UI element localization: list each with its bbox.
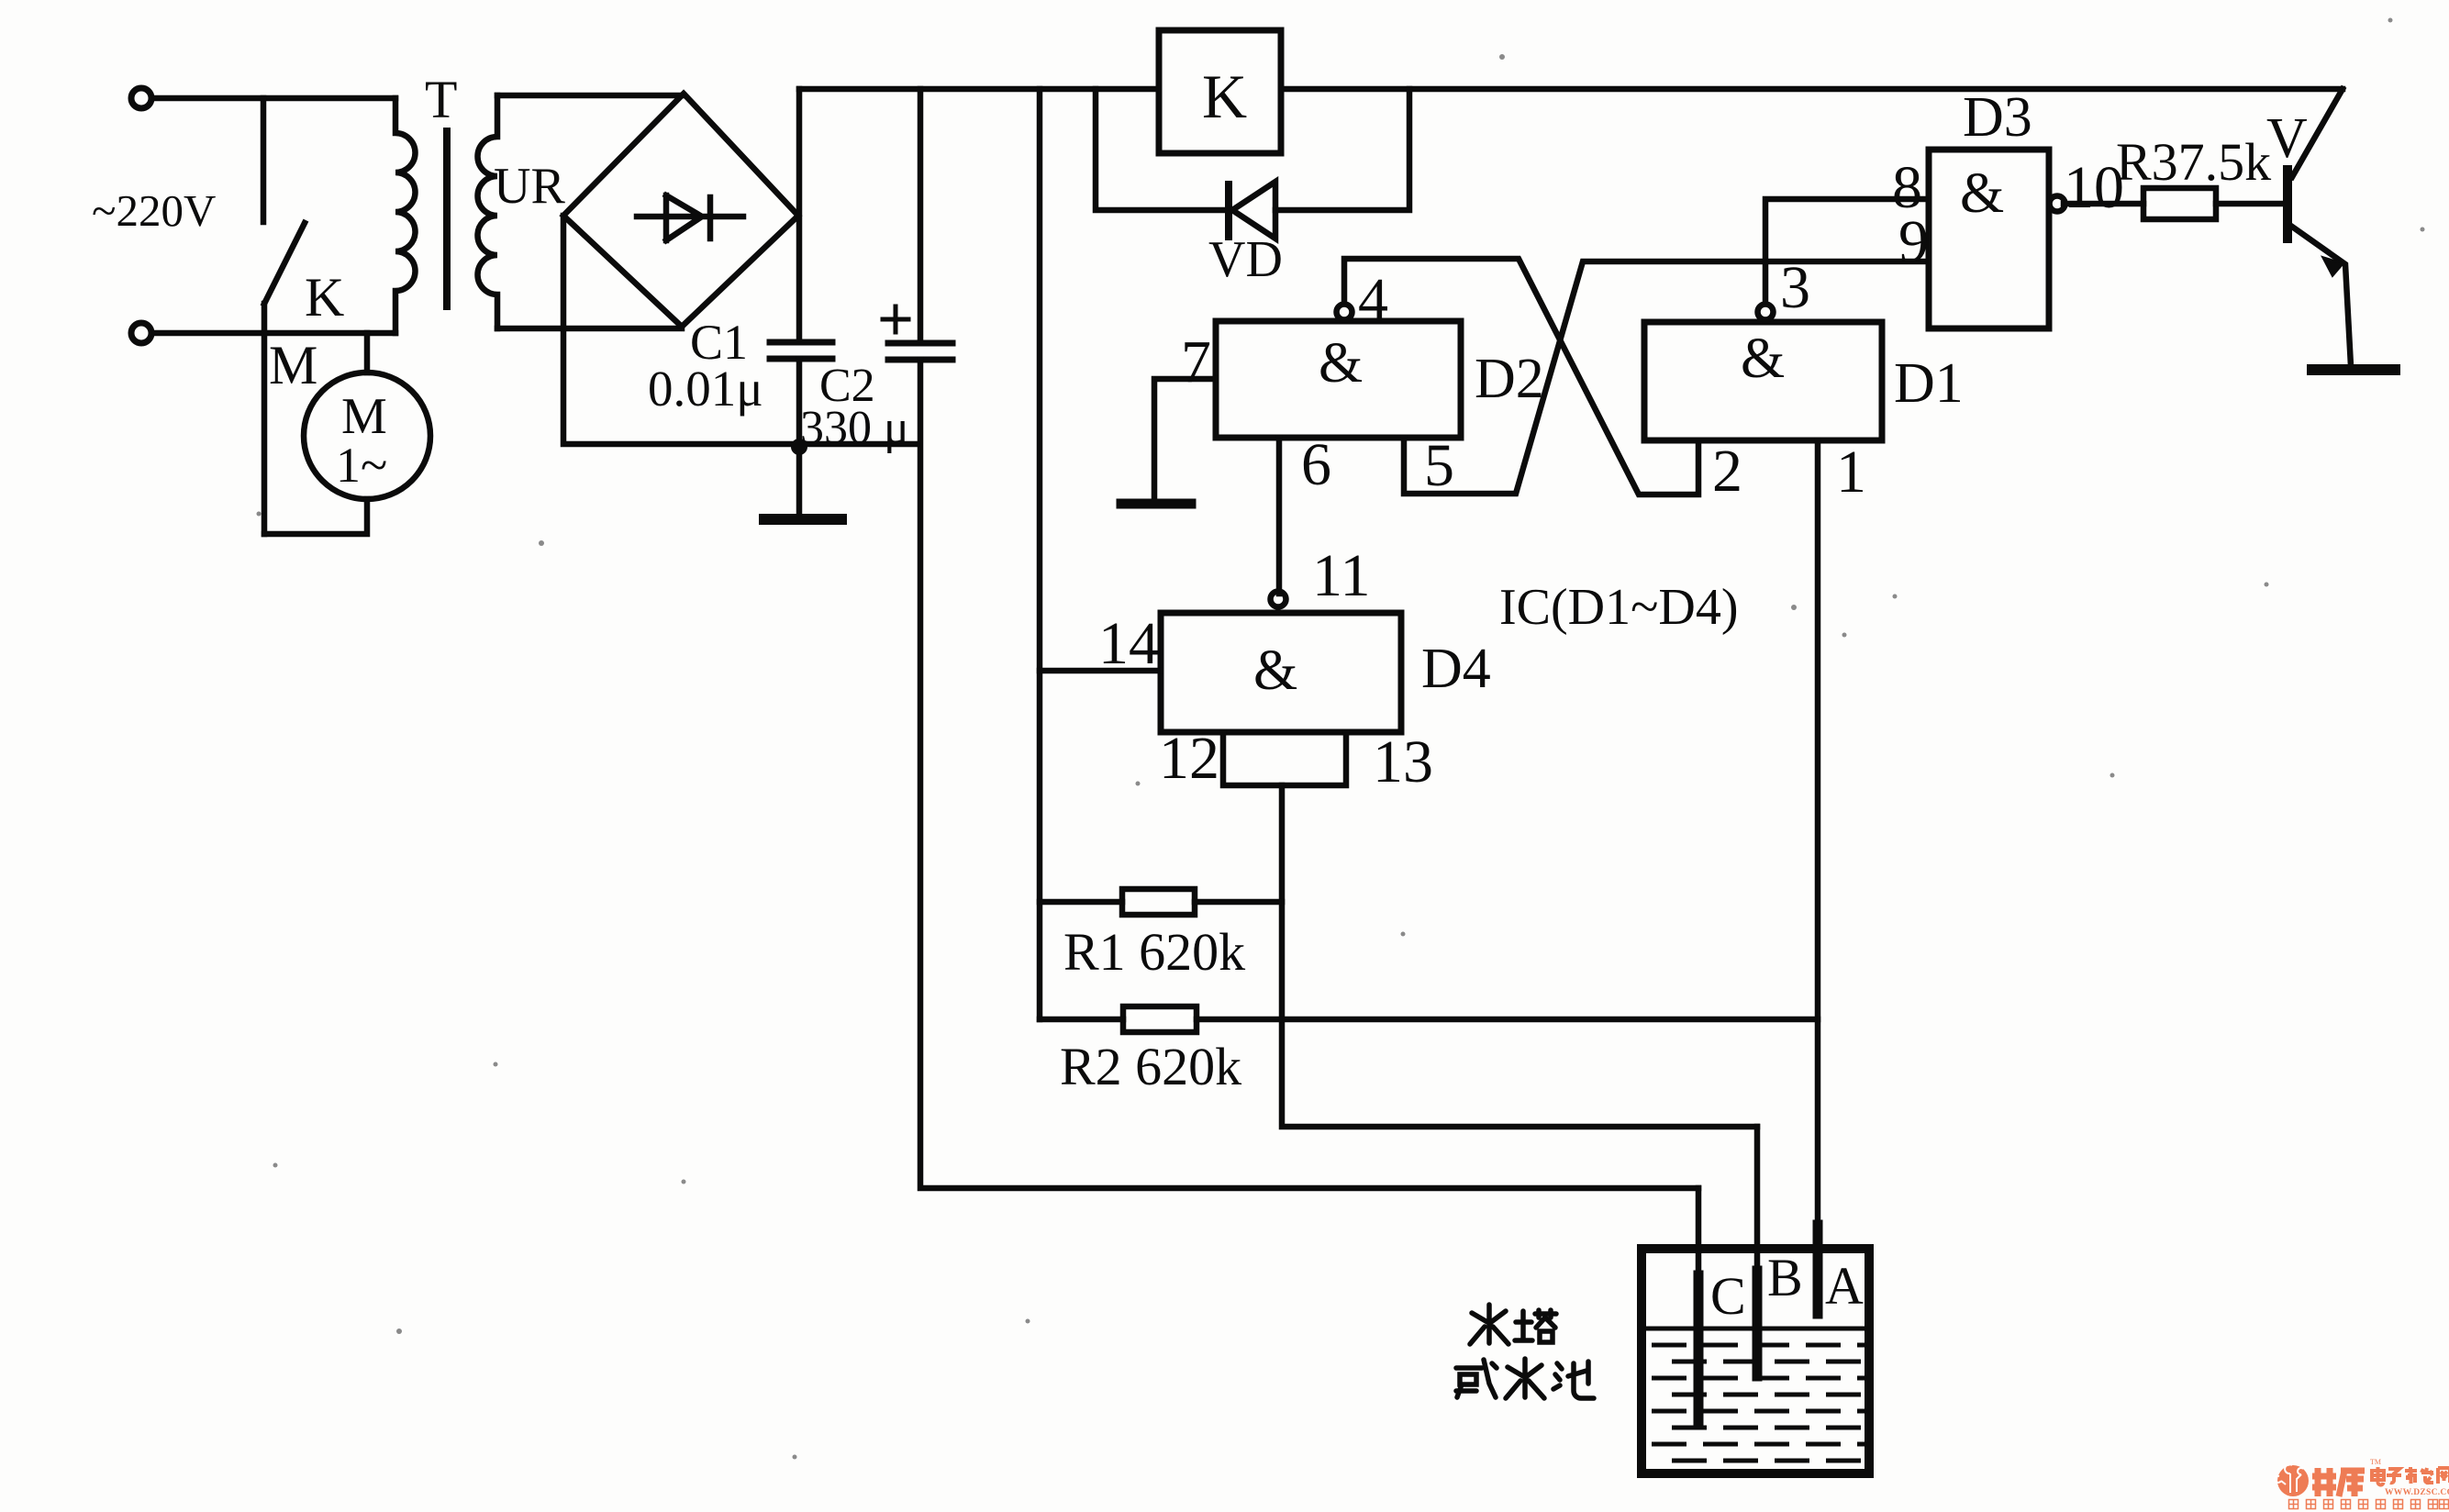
svg-text:5: 5 [1424, 432, 1454, 499]
svg-text:VD: VD [1208, 231, 1283, 288]
wire pin3 up to pin8 of D3 [1765, 199, 1929, 304]
pin 3 bubble of D1 [1758, 305, 1774, 320]
svg-text:4: 4 [1358, 266, 1388, 333]
AC input terminal bottom [131, 323, 151, 343]
wire bottom terminal to primary bottom [151, 330, 395, 337]
bridge internal diode [637, 195, 743, 240]
svg-text:12: 12 [1159, 725, 1219, 792]
wire R2 left [1040, 1017, 1123, 1023]
wire pins 12 13 tie of D4 [1223, 732, 1346, 785]
ground for supply [796, 444, 803, 516]
NAND gate D1 box [1644, 322, 1882, 440]
svg-text:&: & [1741, 328, 1785, 390]
ground for emitter [2312, 364, 2395, 375]
electrode A [1813, 1225, 1823, 1314]
svg-text:~220V: ~220V [92, 185, 216, 236]
wire switch upper contact [261, 98, 267, 222]
emitter arrowhead [2322, 257, 2343, 276]
svg-text:7: 7 [1181, 328, 1211, 395]
wire oscillator node down to electrode B run [1282, 785, 1757, 1127]
resistor R2 body [1123, 1006, 1197, 1032]
svg-text:&: & [1319, 332, 1363, 395]
svg-text:D3: D3 [1963, 86, 2032, 149]
transformer T primary winding [395, 98, 415, 333]
diode VD [1225, 184, 1232, 237]
svg-text:1~: 1~ [336, 438, 387, 493]
transistor V emitter [2292, 227, 2351, 366]
wire pin6 of D2 down to pin11 of D4 [1276, 438, 1283, 594]
svg-text:B: B [1767, 1248, 1803, 1307]
capacitor C2 plus sign [883, 306, 908, 332]
svg-text:C: C [1710, 1266, 1746, 1326]
capacitor C1 stem top [796, 89, 803, 342]
wire relay-diode bracket left [1096, 89, 1229, 210]
transformer T core [443, 131, 451, 306]
svg-text:IC(D1~D4): IC(D1~D4) [1499, 579, 1738, 636]
svg-text:2: 2 [1712, 438, 1742, 505]
pin 4 bubble of D2 [1337, 305, 1353, 320]
svg-text:3: 3 [1780, 254, 1810, 321]
electrode B [1754, 1127, 1761, 1280]
svg-text:D2: D2 [1475, 348, 1544, 410]
top positive bus rail [799, 86, 2343, 93]
watermark tagline glyphs [2289, 1500, 2449, 1509]
switch K blade [264, 223, 305, 304]
water texture dashes [1652, 1345, 1866, 1461]
transformer secondary winding UR [478, 95, 498, 328]
svg-text:0.01μ: 0.01μ [648, 361, 763, 417]
svg-text:T: T [425, 70, 457, 129]
wire pin5 stub of D2 [1404, 261, 1929, 494]
water tank walls [1642, 1249, 1869, 1473]
electrode C [1696, 1188, 1702, 1280]
label 或水池 (or water pool) hand-drawn [1456, 1359, 1594, 1398]
water surface line [1642, 1327, 1869, 1331]
resistor R1 body [1122, 889, 1195, 915]
NAND gate D4 box [1161, 613, 1401, 732]
svg-text:R1 620k: R1 620k [1063, 922, 1245, 982]
svg-text:TM: TM [2370, 1458, 2381, 1466]
wire relay-diode bracket right [1275, 89, 1409, 210]
svg-text:9: 9 [1898, 208, 1929, 275]
wire motor bottom loop [264, 499, 367, 534]
wire bridge left vertex to ground node [563, 216, 918, 444]
wire pin1 of D1 down to electrode A [1815, 440, 1821, 1229]
svg-text:330 μ: 330 μ [800, 402, 909, 454]
watermark brand text 维库 stylized [2312, 1468, 2365, 1496]
svg-text:D1: D1 [1894, 352, 1964, 415]
AC input terminal top [131, 88, 151, 108]
wire R1 right [1195, 899, 1282, 906]
wire switch lower vertical [262, 304, 268, 534]
wire C2 negative rail down to electrode C run [920, 360, 1698, 1188]
svg-text:6: 6 [1301, 431, 1331, 498]
svg-text:M: M [269, 335, 317, 395]
NAND gate D2 box [1216, 321, 1461, 438]
pin 10 bubble of D3 [2050, 196, 2065, 212]
watermark dzsc logo circle [2275, 1464, 2309, 1496]
wire R2 right to electrode A line [1197, 1017, 1818, 1023]
svg-text:V: V [2266, 107, 2308, 170]
motor M circle [304, 372, 430, 499]
transistor V base bar [2283, 170, 2292, 239]
svg-text:13: 13 [1373, 728, 1433, 795]
svg-text:M: M [341, 388, 387, 445]
svg-text:WWW.DZSC.COM: WWW.DZSC.COM [2385, 1488, 2449, 1497]
wire pin7 of D2 to ground [1154, 379, 1216, 500]
capacitor C2 stem top [918, 89, 924, 343]
wire secondary bottom to bridge bottom vertex [497, 326, 682, 332]
capacitor C1 plates [770, 342, 832, 359]
svg-text:D4: D4 [1421, 638, 1491, 700]
svg-text:&: & [1253, 639, 1297, 702]
wire top terminal to transformer primary [151, 95, 395, 102]
svg-text:K: K [305, 267, 344, 328]
svg-text:&: & [1960, 162, 2004, 225]
svg-text:11: 11 [1312, 542, 1371, 609]
svg-text:A: A [1825, 1256, 1864, 1316]
wire pin10 to resistor R3 [2064, 201, 2143, 207]
junction dot at C1 ground node [791, 439, 807, 455]
svg-text:UR: UR [494, 158, 565, 215]
wire R3 to transistor base [2216, 201, 2284, 207]
svg-text:K: K [1202, 61, 1247, 131]
svg-text:R37.5k: R37.5k [2116, 132, 2271, 192]
NAND gate D3 box [1929, 150, 2049, 328]
wire IC supply bus [1037, 89, 1043, 1019]
relay K coil box [1159, 30, 1281, 153]
capacitor C1 stem bottom [796, 359, 803, 444]
bridge rectifier UR diamond [563, 94, 798, 327]
wire motor top [364, 333, 371, 372]
resistor R3 body [2143, 188, 2216, 219]
svg-text:1: 1 [1836, 439, 1866, 506]
wire R1 left [1040, 899, 1122, 906]
label 水塔 (water tower) hand-drawn [1470, 1305, 1556, 1344]
wire secondary top to bridge top vertex [497, 93, 684, 99]
ground for pin7 [1121, 499, 1191, 509]
pin 11 bubble of D4 [1271, 592, 1286, 607]
wire pin4 to pin2 cross link [1344, 259, 1698, 495]
wire pin14 stub of D4 [1040, 668, 1161, 674]
capacitor C2 plates [888, 343, 952, 360]
svg-text:14: 14 [1098, 610, 1159, 677]
transistor V collector [2292, 89, 2343, 177]
svg-text:R2 620k: R2 620k [1060, 1037, 1241, 1096]
watermark brand text 电子市场网 stylized [2372, 1467, 2449, 1485]
